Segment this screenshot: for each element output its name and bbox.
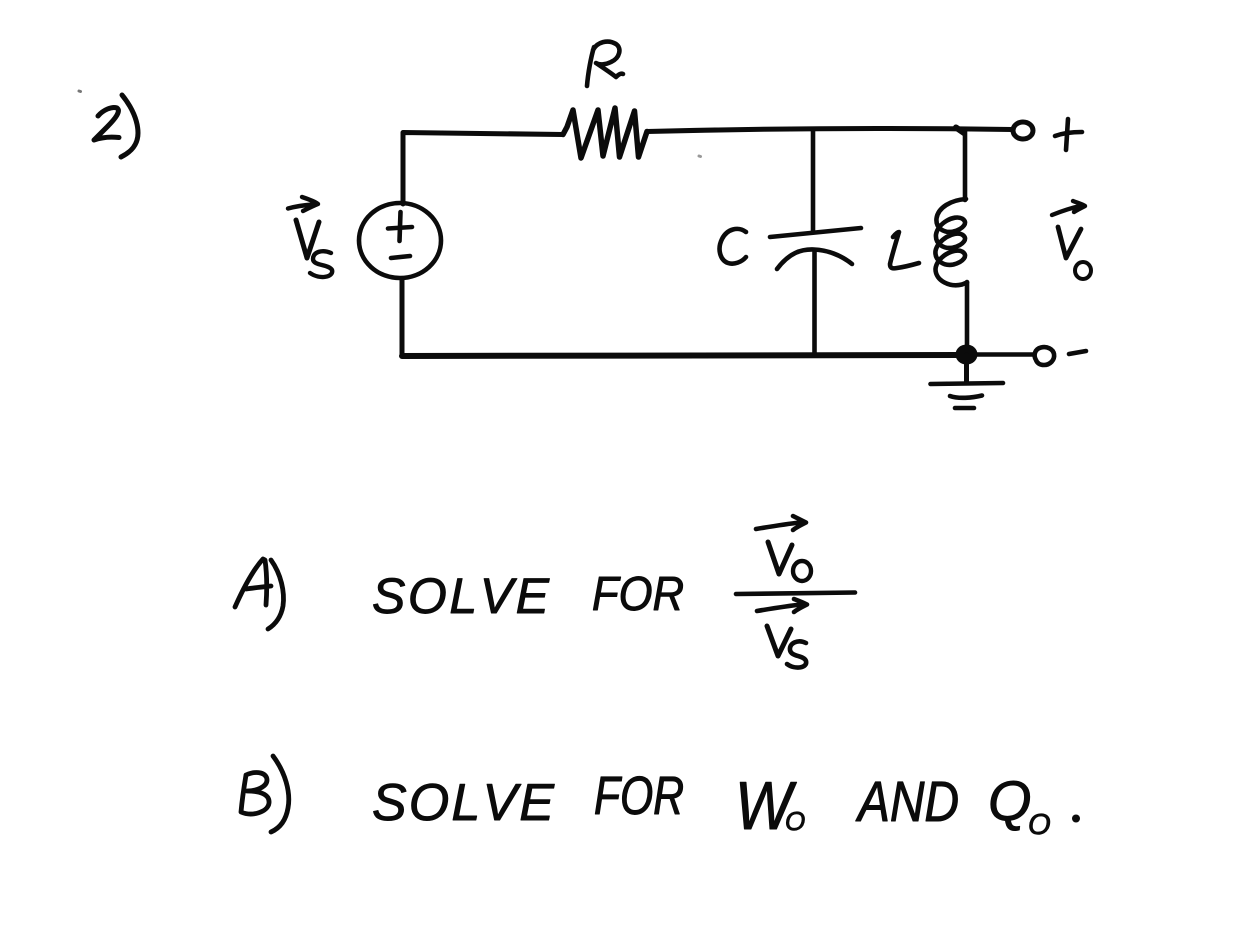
label Wo (740, 782, 804, 830)
text B) (241, 756, 289, 832)
wire: bottom ground rail (402, 355, 958, 356)
denominator s (787, 641, 806, 667)
label Qo. (991, 781, 1080, 834)
resistor R (563, 108, 647, 158)
text AND (856, 782, 958, 821)
+ output terminal (1013, 122, 1033, 139)
stray ink dot (699, 155, 701, 159)
label + (output polarity) (1055, 119, 1082, 150)
numerator o (793, 561, 811, 581)
wire: source top terminal up and right to resistor (403, 133, 563, 205)
numerator arrow (756, 516, 806, 530)
ground (931, 355, 1004, 408)
text FOR (part A) (593, 577, 682, 611)
label L (890, 232, 919, 268)
capacitor C (770, 131, 861, 355)
- output terminal (1035, 347, 1055, 365)
label C (720, 229, 746, 264)
denominator V (767, 626, 791, 656)
numerator V (768, 542, 792, 574)
inductor L (935, 131, 967, 345)
junction: inductor branch on top wire (956, 128, 964, 134)
voltage source Vs (359, 203, 441, 278)
label Vo (1052, 201, 1091, 279)
denominator arrow (757, 599, 807, 612)
stray ink dot (79, 90, 81, 94)
fraction Vo over Vs (736, 516, 855, 668)
text SOLVE (part A) (373, 578, 549, 613)
label - (output polarity) (1069, 351, 1086, 354)
wire: source bottom down to ground rail (400, 279, 405, 356)
label Vs (288, 197, 332, 277)
problem number 2) (94, 95, 138, 157)
text FOR (part B) (595, 776, 682, 814)
text SOLVE (part B) (374, 784, 555, 821)
text A) (235, 559, 284, 629)
wire: resistor to + output terminal (647, 128, 1012, 131)
label R (587, 42, 623, 86)
fraction bar (736, 593, 855, 595)
node junction at ground (956, 345, 978, 365)
wire: node to - output terminal (976, 352, 1033, 357)
